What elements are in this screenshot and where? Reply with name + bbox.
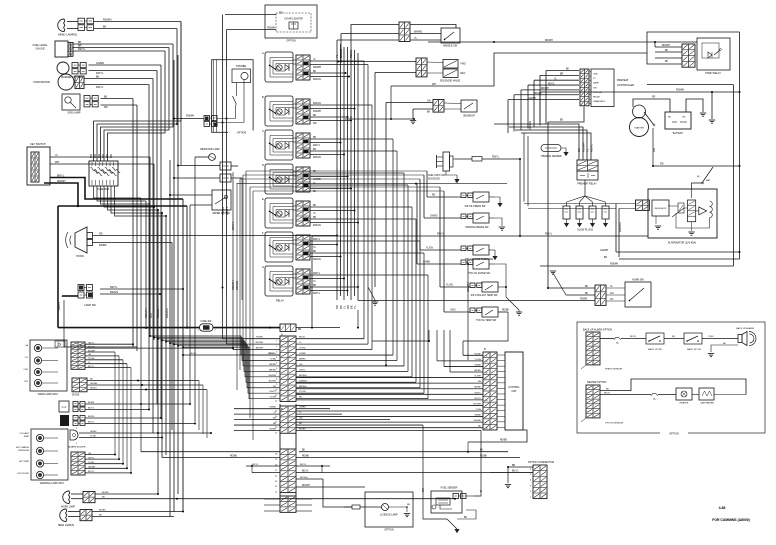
svg-text:RD/YL: RD/YL xyxy=(110,286,118,289)
svg-text:BK: BK xyxy=(313,190,317,193)
svg-text:B: B xyxy=(479,490,483,492)
control unit wire GN xyxy=(296,382,483,384)
wire BK head lamp xyxy=(67,28,78,30)
alternator internals xyxy=(688,200,696,222)
svg-text:BK: BK xyxy=(480,450,484,452)
svg-text:BU: BU xyxy=(299,397,302,399)
wire GN segment xyxy=(386,102,433,104)
svg-text:WH/BU: WH/BU xyxy=(474,420,482,422)
svg-text:9: 9 xyxy=(486,367,487,369)
svg-text:RD: RD xyxy=(652,97,656,99)
svg-text:RD/GN: RD/GN xyxy=(313,156,321,159)
main conn left wire BR/WH xyxy=(233,349,280,351)
thermal sender xyxy=(541,145,561,152)
svg-text:D: D xyxy=(262,163,264,167)
ground center bundle xyxy=(368,287,375,300)
control unit wire RD/BK xyxy=(463,354,483,356)
svg-text:S/R COOLANT TEMP SW: S/R COOLANT TEMP SW xyxy=(471,294,499,297)
svg-text:DIODE: DIODE xyxy=(72,395,80,397)
svg-text:YL: YL xyxy=(335,54,339,58)
svg-text:RD/YL: RD/YL xyxy=(96,72,104,75)
svg-text:YL/RD: YL/RD xyxy=(299,348,306,350)
resistor box DIS xyxy=(220,174,231,182)
svg-text:CAR HEATER: CAR HEATER xyxy=(700,402,714,405)
glow feed wire xyxy=(584,180,586,189)
svg-text:RD/GN: RD/GN xyxy=(235,281,239,290)
svg-text:GN/YL: GN/YL xyxy=(474,392,481,394)
svg-text:BU/YL: BU/YL xyxy=(512,471,519,473)
warning lamp assy1 lamp 2 xyxy=(34,357,41,364)
warn1 wire BU/WH xyxy=(85,351,115,353)
svg-text:GN: GN xyxy=(88,453,92,455)
horn sw box xyxy=(625,282,651,307)
main conn right wire BR/RD xyxy=(296,360,397,362)
wire BU/YL pair xyxy=(246,465,280,467)
switch2 wires xyxy=(85,417,161,419)
preheat controller wire GN/WH xyxy=(508,99,579,101)
wire RD/YL horn motor xyxy=(84,84,149,86)
svg-text:REGULATOR: REGULATOR xyxy=(655,207,667,210)
wire GN/WH right xyxy=(616,251,740,253)
main conn B right wire RD/BK xyxy=(296,430,481,432)
control unit box xyxy=(505,352,523,430)
relay B xyxy=(265,96,293,126)
warn2 wire GN xyxy=(85,454,115,456)
horn sw connector xyxy=(595,285,606,305)
main connector 3pin top xyxy=(280,324,296,331)
head lamp bottom wires xyxy=(68,511,80,513)
svg-text:RD/GN: RD/GN xyxy=(313,258,321,261)
svg-text:RELAY: RELAY xyxy=(593,96,601,99)
long verticals center-right xyxy=(385,103,387,366)
svg-text:WARN LAMP ASSY: WARN LAMP ASSY xyxy=(38,393,59,396)
wire RD/WH battery row xyxy=(539,92,541,122)
backup sw1 xyxy=(646,333,664,344)
svg-text:HYD OIL TEMP SW: HYD OIL TEMP SW xyxy=(476,320,497,322)
svg-text:2: 2 xyxy=(486,417,487,419)
svg-text:OPTION: OPTION xyxy=(237,132,246,135)
svg-text:GN/BK: GN/BK xyxy=(269,407,276,409)
handle sw wires xyxy=(410,33,441,35)
stop switch xyxy=(59,401,69,412)
main connector body B xyxy=(280,406,296,433)
start relay box xyxy=(697,38,730,70)
svg-text:GN/WH: GN/WH xyxy=(618,222,622,232)
svg-text:BK: BK xyxy=(96,76,100,79)
svg-text:RD: RD xyxy=(104,106,108,109)
control unit wire GN/BK xyxy=(444,365,483,367)
main conn left wire RD/BU xyxy=(223,338,281,340)
wire BK right xyxy=(618,257,620,259)
svg-text:RD/GN: RD/GN xyxy=(313,224,321,227)
svg-text:BK: BK xyxy=(566,69,570,71)
svg-text:YL/GN: YL/GN xyxy=(299,391,306,393)
switch col top bends xyxy=(246,170,427,172)
svg-text:RESISTOR LAMP: RESISTOR LAMP xyxy=(200,148,220,151)
svg-text:BK: BK xyxy=(464,517,468,519)
svg-text:GN/YL: GN/YL xyxy=(231,221,235,230)
svg-text:CONTROL: CONTROL xyxy=(508,387,520,389)
key switch xyxy=(27,147,50,185)
svg-text:RD/WH: RD/WH xyxy=(186,114,194,117)
car heater box xyxy=(699,388,714,400)
control unit wire YL/WH xyxy=(296,377,483,379)
svg-text:ALARM BUZZER: ALARM BUZZER xyxy=(69,446,86,449)
control unit right loop xyxy=(468,430,527,442)
svg-text:GN/RD: GN/RD xyxy=(474,370,481,372)
svg-text:HORN SW: HORN SW xyxy=(632,279,644,282)
fuse outputs xyxy=(94,186,142,198)
svg-text:RD/YL: RD/YL xyxy=(190,353,197,355)
control unit wire WH/BU xyxy=(296,421,483,423)
main conn right wire BR/WH xyxy=(296,387,420,389)
svg-text:RD/YL: RD/YL xyxy=(492,156,500,159)
control unit wire RD/YL xyxy=(296,399,483,401)
svg-text:OPTION: OPTION xyxy=(286,40,295,43)
svg-text:HORN MOTOR: HORN MOTOR xyxy=(33,81,50,84)
svg-text:RD/YL: RD/YL xyxy=(437,233,445,236)
backup alarm ground xyxy=(711,345,738,352)
main conn right wire GN/YL xyxy=(296,370,408,372)
svg-text:BK: BK xyxy=(604,256,608,259)
relay C wires xyxy=(293,137,296,139)
svg-text:RD/YL: RD/YL xyxy=(88,471,95,473)
svg-text:4-68: 4-68 xyxy=(719,506,726,510)
svg-text:BU/BK: BU/BK xyxy=(88,402,95,404)
svg-text:CONTROLLER: CONTROLLER xyxy=(617,84,634,87)
relay C xyxy=(265,130,293,160)
svg-text:BAT.: BAT. xyxy=(706,179,711,182)
main conn right wire GN/WH xyxy=(296,381,416,383)
svg-text:BK: BK xyxy=(313,170,317,173)
svg-text:RD/YL: RD/YL xyxy=(313,272,321,275)
svg-text:RD/WH: RD/WH xyxy=(662,45,670,47)
svg-text:GN/RD: GN/RD xyxy=(430,216,438,218)
wire RD cigar xyxy=(225,14,276,16)
svg-text:RD/YL: RD/YL xyxy=(545,233,553,236)
svg-text:BR: BR xyxy=(560,74,564,76)
warning lamp assy1 diode xyxy=(55,341,65,347)
svg-text:RD/GN: RD/GN xyxy=(88,346,95,348)
svg-text:FUSE 40A: FUSE 40A xyxy=(201,320,212,323)
main conn right wire YL/RD xyxy=(296,349,372,351)
svg-text:TEMP: TEMP xyxy=(23,436,29,438)
svg-text:RD: RD xyxy=(99,233,103,236)
svg-text:HEATER: HEATER xyxy=(680,402,689,405)
warn1 wire GN/YL xyxy=(85,343,133,345)
relay G xyxy=(265,266,293,296)
alarm buzzer xyxy=(70,430,78,440)
wire solenoid left1 xyxy=(338,61,416,63)
wire BU/YL long xyxy=(252,472,280,474)
svg-text:UNIT: UNIT xyxy=(511,391,517,393)
svg-text:SEGMENT: SEGMENT xyxy=(463,115,475,118)
svg-text:YL/GN: YL/GN xyxy=(474,359,481,361)
alarm buzzer wires xyxy=(79,432,211,434)
svg-text:Y/GN: Y/GN xyxy=(476,409,482,411)
svg-text:BACK UP SW: BACK UP SW xyxy=(648,348,663,351)
svg-text:GN/YL: GN/YL xyxy=(88,343,95,345)
glow plugs xyxy=(563,206,570,219)
warning lamp assy2 box xyxy=(31,429,68,480)
wire WH solenoid-up xyxy=(391,53,647,86)
warn1 wire BU/YL xyxy=(85,367,131,369)
svg-text:BK: BK xyxy=(313,136,317,139)
svg-text:RD/BK: RD/BK xyxy=(99,510,106,512)
wire segment risers tie xyxy=(345,118,414,120)
preheat controller connector xyxy=(580,69,589,106)
wire RD/BK horn xyxy=(93,242,173,244)
preheat controller wire YL xyxy=(534,79,579,81)
svg-text:RD/WH: RD/WH xyxy=(474,403,482,405)
svg-text:YL/RD: YL/RD xyxy=(90,436,97,438)
svg-text:RD/YL: RD/YL xyxy=(313,292,321,295)
svg-text:WH: WH xyxy=(432,83,436,86)
wire BK horn motor xyxy=(84,78,153,80)
main conn B left wire BK xyxy=(234,424,280,426)
svg-text:RD/WH: RD/WH xyxy=(57,180,66,183)
main connector C body xyxy=(280,496,296,512)
wire BR fuel gauge xyxy=(73,47,169,49)
main conn right wire YL xyxy=(296,343,368,345)
lamp switch xyxy=(78,285,84,291)
svg-text:(B): (B) xyxy=(697,176,700,178)
main conn B left wire YL xyxy=(234,413,280,415)
svg-text:WORK LAMP: WORK LAMP xyxy=(61,506,76,509)
svg-text:BACK UP SW: BACK UP SW xyxy=(687,348,702,351)
svg-text:RD: RD xyxy=(660,163,664,166)
handle sw connector xyxy=(399,22,410,42)
backup alarm speaker xyxy=(738,335,742,343)
head lamp HL1 connector xyxy=(78,18,85,24)
svg-text:GN: GN xyxy=(299,364,303,366)
svg-text:RD/BK: RD/BK xyxy=(302,456,309,458)
preheat gnd loop xyxy=(548,107,584,288)
svg-text:SPEED SENSOR: SPEED SENSOR xyxy=(605,369,623,371)
svg-text:3: 3 xyxy=(486,406,487,408)
svg-text:HST CHARGE PRESS SW: HST CHARGE PRESS SW xyxy=(465,258,494,261)
svg-text:RD/YL: RD/YL xyxy=(268,353,275,355)
svg-text:BK: BK xyxy=(560,120,564,122)
svg-text:1: 1 xyxy=(486,411,487,413)
svg-text:WH/RD: WH/RD xyxy=(414,31,422,34)
svg-text:RD/BK: RD/BK xyxy=(230,456,237,458)
strobe option box xyxy=(212,60,253,133)
warning lamp assy1 connector xyxy=(71,342,85,369)
licence lamp option xyxy=(365,492,413,527)
warn2 wire GN/WH xyxy=(85,467,127,469)
svg-text:COOLANT: COOLANT xyxy=(19,432,29,435)
svg-text:BK: BK xyxy=(427,111,431,114)
relay A xyxy=(265,52,293,82)
relay E xyxy=(265,198,293,228)
preheat controller wire RD/GN xyxy=(514,94,579,96)
svg-text:RD: RD xyxy=(109,154,113,158)
fuel level gauge xyxy=(55,41,68,57)
center bundle verticals xyxy=(336,44,338,300)
svg-text:HST TEMP: HST TEMP xyxy=(19,461,30,463)
svg-text:BR: BR xyxy=(421,488,425,492)
wire RD horn xyxy=(93,235,338,237)
main conn right wire BU/WH xyxy=(296,376,412,378)
fuel shut-off solenoid xyxy=(443,152,450,171)
wire RD/YL glow long xyxy=(312,235,648,237)
svg-text:BK: BK xyxy=(78,41,82,44)
horn motor icon xyxy=(58,74,74,90)
relay E connector xyxy=(296,201,310,226)
wire WH key switch xyxy=(50,163,154,165)
segment connector xyxy=(433,100,444,113)
wire solenoid left2 xyxy=(375,72,416,74)
work lamp wires xyxy=(71,493,83,495)
svg-text:RD/WH: RD/WH xyxy=(313,110,321,113)
wire thick lamp sw feed xyxy=(62,295,78,297)
main conn pins123 xyxy=(241,213,280,339)
switch2 xyxy=(60,415,69,426)
wire RD/GN lamp sw xyxy=(100,293,160,295)
svg-text:11: 11 xyxy=(486,356,488,358)
warning lamp assy2 connector xyxy=(71,452,85,475)
svg-text:YL/GN: YL/GN xyxy=(88,358,95,360)
svg-text:CIGAR LIGHTER: CIGAR LIGHTER xyxy=(284,18,303,21)
svg-text:BR/WH: BR/WH xyxy=(256,348,264,350)
svg-text:GN/BK: GN/BK xyxy=(299,407,306,409)
svg-text:RD/WH: RD/WH xyxy=(313,66,321,69)
svg-text:A: A xyxy=(262,51,264,55)
svg-text:GN: GN xyxy=(88,354,92,356)
wire RD/WH lower xyxy=(296,486,365,488)
svg-text:RD/GN: RD/GN xyxy=(534,93,542,95)
relay D connector xyxy=(296,167,310,192)
svg-text:BK: BK xyxy=(313,148,317,151)
licence lamp resistor xyxy=(352,505,360,509)
svg-text:YL: YL xyxy=(353,305,357,309)
warning lamp assy1 box xyxy=(30,340,67,391)
svg-text:STOP: STOP xyxy=(61,407,67,409)
svg-text:BR: BR xyxy=(512,465,516,467)
svg-text:BR/WH: BR/WH xyxy=(299,386,307,388)
warning lamp assy1 lamp 4 xyxy=(34,379,41,386)
svg-text:KEY SWITCH: KEY SWITCH xyxy=(30,143,46,146)
right edge vertical RD xyxy=(619,32,740,259)
svg-text:SOLENOID: SOLENOID xyxy=(428,179,440,181)
control unit wire GN/BK xyxy=(296,416,483,418)
svg-text:YL/GN: YL/GN xyxy=(426,248,433,250)
relay F connector xyxy=(296,235,310,260)
svg-text:OPTION: OPTION xyxy=(669,433,679,436)
backup option box xyxy=(577,322,765,433)
backup sw2 xyxy=(684,333,702,344)
starter xyxy=(630,118,649,137)
svg-text:RD/WH: RD/WH xyxy=(103,19,112,22)
main conn right wire YL/GN xyxy=(296,392,424,394)
option connector wires xyxy=(508,466,533,468)
main conn B left wire GN xyxy=(234,419,280,421)
wire top loop RD xyxy=(428,41,697,43)
svg-text:GN: GN xyxy=(427,100,431,103)
svg-text:HORN: HORN xyxy=(76,255,84,258)
main conn B left wire GN/BK xyxy=(234,408,280,410)
backup connector xyxy=(586,332,600,365)
svg-text:8: 8 xyxy=(486,383,487,385)
fuse 40A xyxy=(200,324,214,331)
svg-text:RD/WH: RD/WH xyxy=(256,342,264,344)
wire RD/BK long xyxy=(296,457,520,459)
svg-text:RD/BK: RD/BK xyxy=(580,298,588,301)
svg-text:GN: GN xyxy=(610,293,614,295)
svg-text:RD: RD xyxy=(652,148,656,152)
svg-text:5: 5 xyxy=(486,378,487,380)
wire BK long xyxy=(299,451,508,453)
wire RD/WH licence xyxy=(296,478,323,480)
start relay loop xyxy=(647,32,740,53)
svg-text:RELAY: RELAY xyxy=(276,299,285,303)
main conn B right wire YL xyxy=(296,413,342,415)
svg-text:YL/WH: YL/WH xyxy=(474,376,481,378)
warning lamp assy2 lamp 3 xyxy=(36,460,43,467)
wire RD/YL shutoff xyxy=(455,158,472,160)
main conn left wire RD/WH xyxy=(227,343,281,345)
svg-text:RD/BK: RD/BK xyxy=(299,429,306,431)
wire RD/WH lamp sw xyxy=(100,288,183,290)
strobe connector xyxy=(204,116,210,121)
s/r coolant temp sw xyxy=(470,283,475,288)
svg-text:GN/RD: GN/RD xyxy=(299,353,306,355)
wire BK segment xyxy=(413,108,433,110)
wire RD/WH key switch thick xyxy=(58,205,78,207)
warn1 wire RD/GN xyxy=(85,347,233,349)
wiper motor xyxy=(212,190,231,210)
alternator left wires xyxy=(616,203,636,205)
svg-text:RD/BK: RD/BK xyxy=(500,440,507,442)
wire RD sign lamp xyxy=(101,104,138,106)
relay A wires xyxy=(293,59,296,61)
svg-text:RD/WH: RD/WH xyxy=(267,27,275,30)
svg-text:BK: BK xyxy=(313,114,317,117)
svg-text:GN/YL: GN/YL xyxy=(299,369,306,371)
warn2 wire GN/YL xyxy=(85,458,119,460)
svg-text:GN/YL: GN/YL xyxy=(88,457,95,459)
svg-text:BU/WH: BU/WH xyxy=(88,350,95,352)
svg-text:OPTION CONNECTOR: OPTION CONNECTOR xyxy=(528,461,555,464)
svg-text:BR: BR xyxy=(298,329,302,331)
svg-text:BR: BR xyxy=(407,504,410,506)
svg-text:12: 12 xyxy=(486,372,488,374)
svg-text:LICENCE LAMP: LICENCE LAMP xyxy=(380,514,398,517)
svg-text:FUEL SHUT-OFF: FUEL SHUT-OFF xyxy=(428,175,447,177)
relay F xyxy=(265,232,293,262)
svg-text:RD/YL: RD/YL xyxy=(604,392,611,394)
svg-text:PRESSURE: PRESSURE xyxy=(18,450,30,452)
svg-text:GN/YL: GN/YL xyxy=(225,206,229,215)
svg-text:RD/WH: RD/WH xyxy=(300,477,308,479)
svg-text:STARTER: STARTER xyxy=(634,127,644,130)
svg-text:RD/YL: RD/YL xyxy=(349,49,353,58)
control unit stubs xyxy=(497,354,505,356)
svg-text:RD/WH: RD/WH xyxy=(541,88,549,90)
warning lamp assy1 lamp 3 xyxy=(34,368,41,375)
warning lamp assy2 lamp 1 xyxy=(36,434,43,441)
svg-text:GN/BK: GN/BK xyxy=(474,364,481,366)
svg-text:BR/YL: BR/YL xyxy=(57,175,65,178)
alternator connector xyxy=(636,200,650,210)
svg-text:B: B xyxy=(262,95,264,99)
svg-text:HEAD LAMP(S): HEAD LAMP(S) xyxy=(58,33,77,37)
svg-text:GAUGE: GAUGE xyxy=(35,48,44,51)
heater connector xyxy=(586,385,600,418)
svg-text:CH: CH xyxy=(610,299,614,301)
wire RD/WH head lamp xyxy=(67,21,78,23)
